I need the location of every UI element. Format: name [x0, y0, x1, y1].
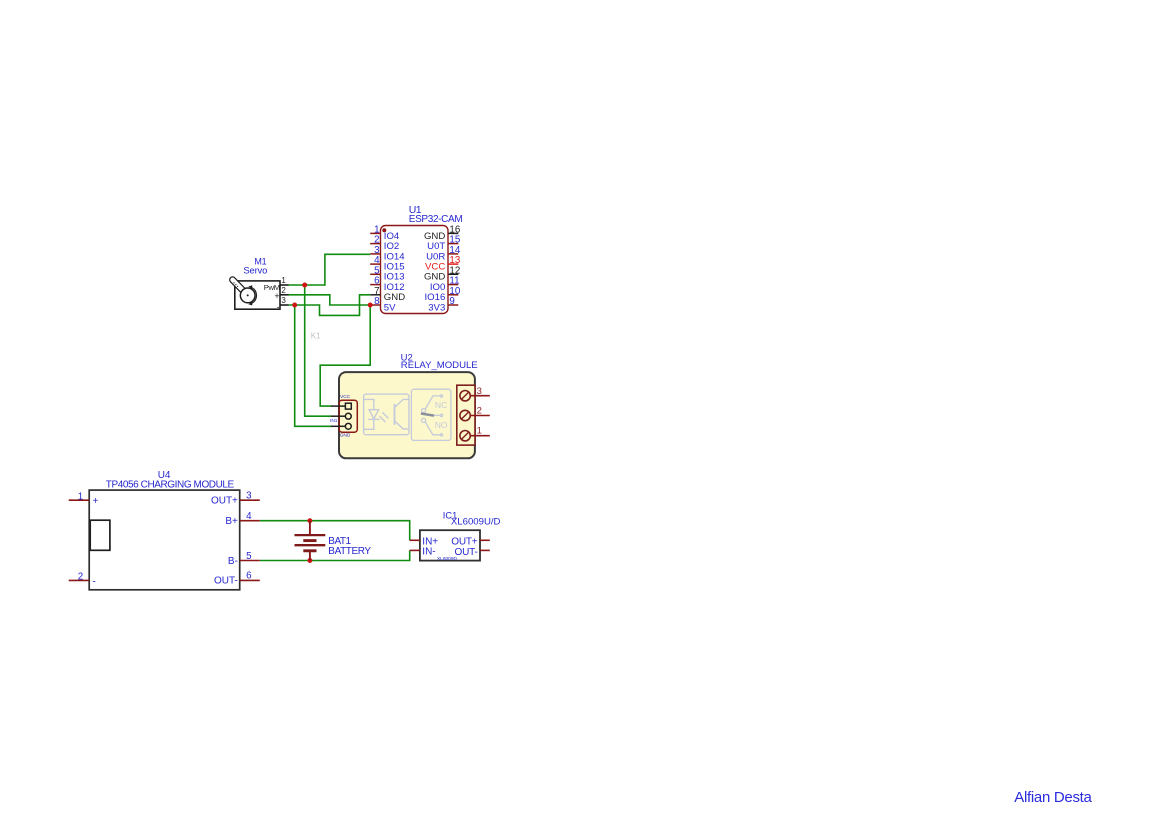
svg-text:-: -: [93, 577, 96, 588]
svg-text:1: 1: [78, 491, 83, 502]
svg-text:2: 2: [477, 406, 482, 417]
svg-text:1: 1: [281, 276, 286, 285]
svg-text:NO: NO: [435, 420, 448, 430]
svg-text:BATTERY: BATTERY: [328, 546, 371, 557]
svg-text:NC: NC: [435, 400, 447, 410]
svg-text:K1: K1: [311, 331, 321, 340]
svg-text:TP4056 CHARGING MODULE: TP4056 CHARGING MODULE: [106, 479, 235, 490]
svg-text:3: 3: [477, 386, 482, 397]
svg-text:Servo: Servo: [243, 266, 267, 277]
svg-text:1: 1: [477, 426, 482, 437]
svg-text:5: 5: [246, 551, 252, 562]
svg-text:IN1: IN1: [330, 418, 338, 424]
svg-text:5V: 5V: [384, 302, 396, 313]
svg-text:2: 2: [78, 572, 83, 583]
svg-text:-: -: [277, 302, 280, 312]
svg-text:B-: B-: [228, 556, 238, 567]
svg-text:8: 8: [374, 296, 380, 307]
svg-text:IN-: IN-: [422, 547, 435, 558]
svg-text:+: +: [93, 496, 99, 507]
svg-text:3: 3: [281, 296, 286, 305]
svg-text:Alfian Desta: Alfian Desta: [1014, 789, 1092, 806]
svg-text:6: 6: [246, 571, 252, 582]
svg-text:OUT-: OUT-: [455, 547, 478, 558]
svg-text:3: 3: [246, 491, 252, 502]
svg-text:2: 2: [281, 286, 286, 295]
svg-text:OUT+: OUT+: [211, 496, 238, 507]
svg-text:B+: B+: [225, 516, 238, 527]
svg-text:VCC: VCC: [340, 394, 351, 400]
svg-text:3V3: 3V3: [428, 302, 445, 313]
svg-text:GND: GND: [340, 433, 351, 439]
svg-text:9: 9: [449, 296, 454, 307]
svg-text:XL6009D: XL6009D: [437, 556, 458, 562]
svg-text:ESP32-CAM: ESP32-CAM: [409, 214, 463, 225]
svg-text:4: 4: [246, 511, 252, 522]
svg-text:OUT-: OUT-: [214, 576, 238, 587]
svg-text:RELAY_MODULE: RELAY_MODULE: [401, 360, 478, 371]
svg-text:+: +: [274, 291, 279, 301]
svg-text:XL6009U/D: XL6009U/D: [451, 517, 501, 528]
